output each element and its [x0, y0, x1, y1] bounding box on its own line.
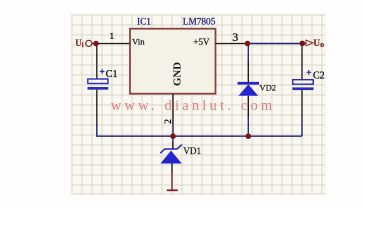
- pin 1 wire (Ui to Vin): [93, 43, 131, 45]
- junction dot at VD2 top node: [245, 41, 251, 47]
- capacitor C2 bottom plate: [292, 87, 313, 90]
- junction dot at Ui/C1 node: [93, 41, 99, 47]
- output port arrow: [306, 40, 313, 46]
- VD1 anode pin (black): [171, 164, 173, 174]
- svg-text:Vin: Vin: [132, 36, 145, 46]
- wire VD2 to bus (blue): [247, 116, 249, 136]
- wire C2 bottom pin: [301, 90, 303, 121]
- VD2 anode pin (black): [247, 96, 249, 117]
- C2 plus sign: [307, 70, 312, 75]
- input terminal circle: [86, 40, 92, 46]
- pin 3 wire (+5V out): [216, 43, 249, 45]
- svg-text:VD2: VD2: [259, 83, 276, 93]
- wire Ui node down to C1: [96, 44, 98, 79]
- zener VD1 cathode bar with wings: [160, 145, 182, 154]
- wire junction to C2: [301, 44, 303, 80]
- pin 2 wire (GND pin down): [172, 94, 174, 126]
- ground bus wire (blue): [173, 135, 302, 137]
- svg-text:C2: C2: [313, 71, 325, 82]
- grid lines: [71, 14, 325, 194]
- junction dot at VD2 bottom bus node: [246, 133, 252, 139]
- schematic sheet area: [71, 14, 325, 194]
- wire C1 bottom pin: [96, 90, 98, 124]
- svg-text:1: 1: [110, 31, 114, 41]
- capacitor C2 top plate: [293, 80, 314, 85]
- svg-text:+5V: +5V: [193, 37, 210, 47]
- junction dot at C2/output node: [300, 41, 306, 47]
- zener VD1 triangle: [161, 151, 182, 164]
- diode VD2 cathode bar: [238, 82, 259, 85]
- svg-text:www. dianlut. com: www. dianlut. com: [111, 98, 276, 114]
- capacitor C1 top plate: [88, 79, 108, 84]
- wire pin2 to bus (blue): [172, 126, 174, 137]
- svg-text:VD1: VD1: [183, 146, 201, 156]
- wire +5V net (blue, junction VD2 to junction C2): [247, 43, 302, 45]
- capacitor C1 bottom plate: [88, 87, 109, 90]
- VD1 cathode pin: [172, 142, 174, 149]
- regulator IC1 LM7805 body: [130, 29, 216, 94]
- svg-text:Uo: Uo: [313, 39, 324, 49]
- power ground bar: [167, 189, 178, 191]
- wire stub to output port: [302, 43, 306, 45]
- svg-text:2: 2: [164, 119, 174, 124]
- diode VD2 triangle: [239, 84, 259, 95]
- junction dot at GND pin bus node: [170, 133, 176, 139]
- svg-text:IC1: IC1: [137, 17, 151, 27]
- VD2 cathode pin (black): [247, 62, 249, 82]
- wire junction to VD2 (blue upper): [247, 44, 249, 64]
- wire VD1 to power ground (maroon): [171, 173, 173, 190]
- wire C2 to bus (blue corner): [301, 121, 303, 136]
- svg-text:C1: C1: [106, 69, 118, 80]
- wire bus junction to VD1: [172, 136, 174, 143]
- wire C1 to ground bus (blue corner): [97, 123, 173, 136]
- C1 plus sign: [100, 69, 105, 74]
- svg-text:3: 3: [232, 30, 238, 44]
- svg-text:LM7805: LM7805: [183, 17, 216, 27]
- svg-text:GND: GND: [171, 62, 183, 86]
